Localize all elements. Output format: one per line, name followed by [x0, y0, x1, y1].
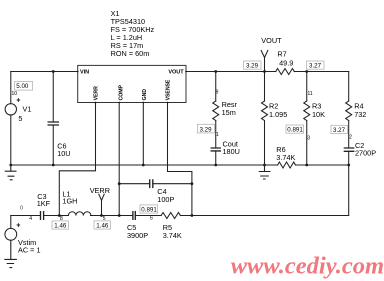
svg-text:10K: 10K [312, 110, 325, 119]
svg-text:732: 732 [354, 110, 366, 119]
svg-text:4: 4 [29, 216, 32, 222]
svg-text:3.27: 3.27 [309, 63, 322, 70]
svg-text:VERR: VERR [90, 186, 110, 195]
svg-text:10U: 10U [57, 149, 70, 158]
svg-text:VOUT: VOUT [261, 36, 282, 45]
svg-text:1.46: 1.46 [54, 223, 67, 230]
svg-text:3.29: 3.29 [200, 126, 213, 133]
svg-text:10: 10 [12, 91, 18, 97]
svg-text:VIN: VIN [80, 69, 89, 75]
svg-text:1: 1 [216, 132, 219, 138]
svg-text:3900P: 3900P [127, 231, 148, 240]
svg-text:VSENSE: VSENSE [166, 79, 172, 100]
svg-text:1KF: 1KF [37, 199, 51, 208]
svg-text:3.74K: 3.74K [163, 231, 182, 240]
svg-text:VOUT: VOUT [168, 69, 184, 75]
svg-text:8: 8 [60, 216, 63, 222]
svg-text:1GH: 1GH [62, 196, 77, 205]
svg-text:0.891: 0.891 [287, 127, 303, 134]
svg-text:V1: V1 [23, 104, 32, 113]
svg-text:3: 3 [307, 135, 310, 141]
svg-text:VERR: VERR [94, 86, 100, 101]
svg-text:0.891: 0.891 [141, 207, 157, 214]
svg-text:180U: 180U [223, 147, 240, 156]
svg-text:RON = 60m: RON = 60m [111, 49, 150, 58]
svg-text:3.29: 3.29 [246, 63, 259, 70]
svg-text:www.cediy.com: www.cediy.com [231, 253, 384, 280]
svg-text:R7: R7 [277, 50, 286, 59]
svg-text:0: 0 [20, 206, 23, 212]
svg-text:9: 9 [216, 89, 219, 95]
svg-text:5: 5 [18, 114, 22, 123]
svg-text:5: 5 [103, 216, 106, 222]
svg-text:6: 6 [150, 216, 153, 222]
svg-text:11: 11 [308, 91, 313, 97]
svg-text:100P: 100P [157, 195, 174, 204]
svg-text:GND: GND [142, 89, 148, 101]
svg-text:15m: 15m [222, 108, 236, 117]
svg-text:1.46: 1.46 [96, 223, 109, 230]
svg-text:3.74K: 3.74K [276, 153, 295, 162]
svg-text:5.00: 5.00 [16, 83, 29, 90]
svg-text:AC = 1: AC = 1 [18, 245, 41, 254]
svg-text:49.9: 49.9 [279, 58, 293, 67]
svg-text:2: 2 [349, 135, 352, 141]
svg-text:3.27: 3.27 [333, 127, 346, 134]
svg-text:COMP: COMP [118, 84, 124, 100]
svg-text:2700P: 2700P [355, 149, 376, 158]
svg-text:1.095: 1.095 [269, 110, 287, 119]
